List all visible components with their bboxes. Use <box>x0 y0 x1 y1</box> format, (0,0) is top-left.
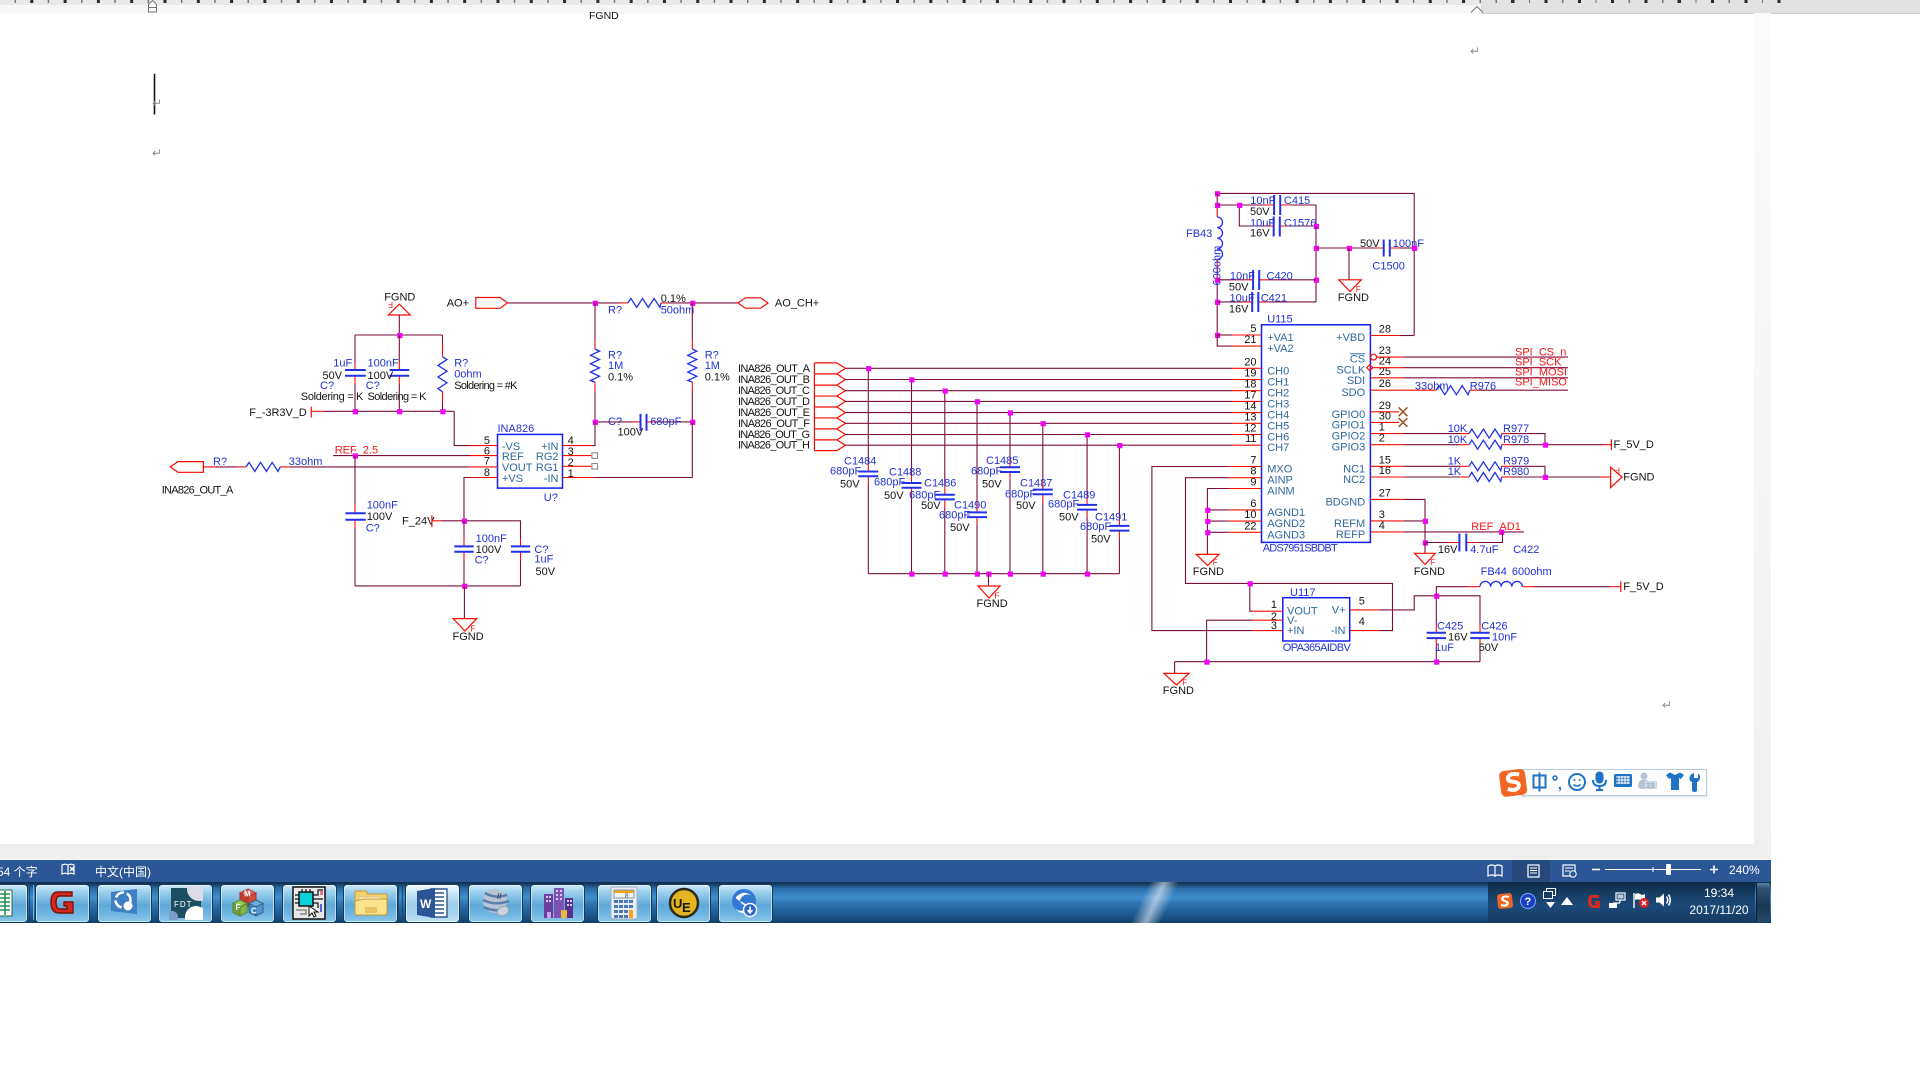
capacitor C420 10nF 50V <box>1217 270 1316 294</box>
ferrite bead FB44 600ohm <box>1436 566 1551 596</box>
svg-text:AGND3: AGND3 <box>1267 529 1305 541</box>
wire VOUT feedback from buffer rail <box>1250 583 1253 611</box>
svg-text:600ohm: 600ohm <box>1512 566 1552 578</box>
svg-text:7: 7 <box>484 456 490 468</box>
svg-text:16V: 16V <box>1438 544 1458 556</box>
svg-text:2: 2 <box>1379 433 1385 445</box>
svg-text:V+: V+ <box>1332 604 1346 616</box>
wire AO+ to resistor <box>508 302 621 304</box>
junction dots on caps rail <box>909 572 1090 577</box>
svg-text:INA826_OUT_D: INA826_OUT_D <box>738 396 810 408</box>
wire U117 bottom rail <box>1175 661 1480 663</box>
resistor R? 1M 0.1% (right) <box>688 303 730 422</box>
op-amp U? INA826 <box>484 423 574 504</box>
svg-text:REF_AD1: REF_AD1 <box>1471 521 1521 533</box>
svg-text:FB44: FB44 <box>1481 566 1507 578</box>
red G tray <box>1586 893 1602 910</box>
pin 3 +IN stub <box>1253 630 1283 632</box>
junction dots on 3R3V rail <box>353 409 358 414</box>
svg-text:50V: 50V <box>1016 500 1036 512</box>
capacitor C1491 680pF 50V <box>1080 445 1129 574</box>
ground FGND (above 3R3V cap bank) <box>384 292 415 316</box>
resistor R976 33ohm (SDO) <box>1370 380 1496 394</box>
btn UE <box>656 884 711 924</box>
svg-text:1: 1 <box>568 468 574 480</box>
svg-text:+IN: +IN <box>1287 625 1304 637</box>
svg-text:+VS: +VS <box>502 473 523 485</box>
pin 27 BDGND wire <box>1370 498 1403 500</box>
wire resistor to AO_CH+ <box>668 302 738 304</box>
svg-text:50V: 50V <box>1091 534 1111 546</box>
svg-text:+VBD: +VBD <box>1336 332 1365 344</box>
svg-text:CH5: CH5 <box>1267 420 1289 432</box>
port INA826_OUT_A (left) <box>162 462 234 497</box>
svg-text:AO_CH+: AO_CH+ <box>775 297 819 309</box>
svg-text:W: W <box>420 897 432 911</box>
text cursor <box>154 74 156 115</box>
svg-text:BDGND: BDGND <box>1325 496 1365 508</box>
sogou input bar <box>1521 769 1707 796</box>
resistor R980 1K (NC2) <box>1370 466 1529 481</box>
svg-text:F: F <box>388 300 393 309</box>
wire top rail of 3R3V cap bank <box>355 334 443 336</box>
svg-text:100nF: 100nF <box>368 357 399 369</box>
wire +VA1 connection <box>1217 334 1232 336</box>
svg-text:16V: 16V <box>1229 304 1249 316</box>
svg-text:4.7uF: 4.7uF <box>1470 544 1498 556</box>
svg-text:19: 19 <box>1244 368 1256 380</box>
svg-text:1uF: 1uF <box>333 357 352 369</box>
svg-text:100V: 100V <box>367 511 393 523</box>
svg-text:M: M <box>244 890 251 899</box>
wire right bypass vertical <box>1315 226 1317 302</box>
svg-text:↵: ↵ <box>152 96 162 110</box>
svg-text:E: E <box>682 900 691 915</box>
svg-text:20: 20 <box>1244 356 1256 368</box>
window restore icon <box>1543 888 1556 900</box>
svg-text:CH0: CH0 <box>1267 365 1289 377</box>
pin 5 V+ wire <box>1350 609 1380 611</box>
svg-text:CH1: CH1 <box>1267 377 1289 389</box>
svg-text:FGND: FGND <box>589 10 619 22</box>
btn calculator <box>597 884 652 924</box>
junction dots on AO line <box>593 301 598 306</box>
wire bottom rail of 3R3V bank <box>323 410 454 412</box>
svg-text:F_5V_D: F_5V_D <box>1623 581 1663 593</box>
svg-text:F_5V_D: F_5V_D <box>1614 439 1654 451</box>
svg-text:680pF: 680pF <box>939 510 970 522</box>
svg-text:10nF: 10nF <box>1250 195 1275 207</box>
svg-text:Soldering = #K: Soldering = #K <box>454 380 518 392</box>
svg-text:SPI_MISO: SPI_MISO <box>1515 377 1567 389</box>
svg-text:GPIO1: GPIO1 <box>1332 419 1366 431</box>
capacitor C422 4.7uF 16V <box>1425 532 1539 556</box>
svg-text:AGND2: AGND2 <box>1267 518 1305 530</box>
svg-text:II: II <box>497 892 502 901</box>
pin 24 SCLK diamond and wire <box>1367 365 1373 371</box>
power port F_24V <box>402 515 441 527</box>
wire AINP to buffer rail <box>1186 478 1393 631</box>
status bar <box>0 860 1771 882</box>
pin 1 -IN stub and wire up to 680pF node <box>563 477 596 479</box>
svg-text:↵: ↵ <box>1662 698 1672 712</box>
svg-text:27: 27 <box>1379 487 1391 499</box>
taskbar <box>0 882 1771 923</box>
wire MXO loop to U117 +IN <box>1152 467 1253 631</box>
svg-text:U115: U115 <box>1267 313 1292 325</box>
svg-text:F: F <box>1615 466 1620 475</box>
port AO_CH+ <box>738 297 819 309</box>
svg-text:AGND1: AGND1 <box>1267 507 1305 519</box>
svg-text:50V: 50V <box>536 566 556 578</box>
junction dots at 680pF <box>593 420 598 425</box>
svg-text:FGND: FGND <box>1163 685 1194 697</box>
pin 4 REFP wire <box>1370 531 1403 533</box>
capacitor C? 680pF 100V <box>595 414 692 438</box>
svg-text:4: 4 <box>1359 616 1365 628</box>
svg-text:INA826_OUT_A: INA826_OUT_A <box>738 363 811 375</box>
wires ports to U115 CH pins <box>845 368 1232 445</box>
resistor R? 1M 0.1% (left) <box>591 303 634 422</box>
svg-text:R?: R? <box>454 357 468 369</box>
net labels INA826_OUT_A..H <box>738 363 811 452</box>
svg-text:50V: 50V <box>884 490 904 502</box>
hidden icons arrow <box>1561 897 1573 905</box>
IC U115 ADS7951SBDBT <box>1244 313 1391 554</box>
svg-text:33ohm: 33ohm <box>289 456 323 468</box>
svg-text:C426: C426 <box>1481 620 1507 632</box>
btn folder <box>343 884 398 924</box>
svg-text:FDT: FDT <box>174 900 193 909</box>
power port F_5V_D (upper) <box>1603 439 1654 451</box>
svg-text:680pF: 680pF <box>971 466 1002 478</box>
capacitor C1486 680pF 50V <box>909 391 956 574</box>
resistor R977 10K (GPIO2) <box>1370 423 1529 438</box>
pin 7 VOUT stub <box>470 466 498 468</box>
svg-text:50V: 50V <box>840 479 860 491</box>
svg-text:0.1%: 0.1% <box>608 371 633 383</box>
svg-text:C422: C422 <box>1513 544 1539 556</box>
wire AINM to ground <box>1207 489 1228 555</box>
svg-text:+VA2: +VA2 <box>1267 343 1293 355</box>
svg-text:R?: R? <box>608 304 622 316</box>
ground FGND (C1500) <box>1338 248 1369 304</box>
btn S downloader <box>718 884 773 924</box>
svg-text:FGND: FGND <box>1193 566 1224 578</box>
ground FGND (caps rail) <box>977 574 1008 610</box>
svg-text:Soldering = K: Soldering = K <box>368 391 428 403</box>
svg-text:1: 1 <box>1271 599 1277 611</box>
svg-text:6: 6 <box>1250 498 1256 510</box>
svg-text:100nF: 100nF <box>1393 238 1424 250</box>
svg-text:ADS7951SBDBT: ADS7951SBDBT <box>1263 542 1338 554</box>
ferrite bead FB43 600ohm <box>1186 193 1223 335</box>
svg-text:OPA365AIDBV: OPA365AIDBV <box>1283 642 1352 654</box>
power port F_-3R3V_D <box>249 407 323 419</box>
btn EDA <box>282 884 337 924</box>
capacitor C1485 680pF 50V <box>971 413 1020 574</box>
svg-text:MXO: MXO <box>1267 464 1293 476</box>
wire caps bottom rail <box>868 573 1119 575</box>
port AO+ <box>447 297 508 309</box>
ground FGND (REFM) <box>1414 543 1445 578</box>
svg-text:INA826_OUT_A: INA826_OUT_A <box>162 484 234 496</box>
pin 25 SDI wire <box>1370 377 1403 379</box>
svg-text:C420: C420 <box>1267 270 1293 282</box>
svg-text:680pF: 680pF <box>874 477 905 489</box>
svg-text:SDO: SDO <box>1341 387 1365 399</box>
svg-text:50ohm: 50ohm <box>661 304 695 316</box>
wire F_24V rail <box>441 521 521 538</box>
capacitor C? 100nF 100V (on REF_2.5 branch) <box>345 456 398 586</box>
speaker <box>1655 892 1672 908</box>
wire top supply rail (FB43 to +VBD) <box>1217 193 1414 335</box>
svg-text:680pF: 680pF <box>1048 499 1079 511</box>
capacitor C426 10nF 50V <box>1436 596 1517 662</box>
sogou tray <box>1497 893 1513 909</box>
pin 4 U117 -IN stub <box>1350 630 1380 632</box>
pin 4 +IN stub and wire up to 680pF node <box>563 445 593 447</box>
svg-text:INA826_OUT_B: INA826_OUT_B <box>738 374 810 386</box>
svg-text:C1576: C1576 <box>1284 218 1316 230</box>
pin 23 CS bubble and wire <box>1371 354 1377 360</box>
capacitor C1487 680pF 50V <box>1005 423 1053 573</box>
pin 3 RG2 stub with no-connect square <box>563 455 592 457</box>
svg-text:C1486: C1486 <box>924 478 956 490</box>
svg-text:U: U <box>673 896 682 911</box>
capacitor C1490 680pF 50V <box>939 401 987 573</box>
capacitor C425 1uF 16V <box>1427 596 1469 662</box>
svg-text:33ohm: 33ohm <box>1415 380 1449 392</box>
svg-text:CH3: CH3 <box>1267 398 1289 410</box>
wire AGND2 <box>1207 520 1228 522</box>
svg-text:7: 7 <box>1250 455 1256 467</box>
flag x <box>1632 892 1650 909</box>
wire REF_2.5 to REF pin <box>333 455 470 457</box>
svg-text:INA826_OUT_H: INA826_OUT_H <box>738 440 810 452</box>
svg-text:CH7: CH7 <box>1267 442 1289 454</box>
svg-text:FGND: FGND <box>977 598 1008 610</box>
power port F_5V_D (lower) <box>1611 581 1664 593</box>
svg-text:AINM: AINM <box>1267 486 1295 498</box>
svg-text:10: 10 <box>1244 509 1256 521</box>
junction dots on FB43 vertical <box>1215 203 1220 338</box>
svg-text:-IN: -IN <box>544 473 559 485</box>
svg-text:FGND: FGND <box>1414 566 1445 578</box>
svg-text:16V: 16V <box>1250 228 1270 240</box>
btn source insight <box>468 884 523 924</box>
pin 8 +VS stub <box>470 477 498 479</box>
svg-text:10K: 10K <box>1448 434 1468 446</box>
zoom slider <box>1591 861 1721 878</box>
svg-text:VOUT: VOUT <box>502 462 533 474</box>
svg-text:GPIO3: GPIO3 <box>1332 442 1366 454</box>
svg-text:C1500: C1500 <box>1372 260 1404 272</box>
svg-text:50V: 50V <box>1250 206 1270 218</box>
wire rail to -VS pin <box>454 411 470 445</box>
svg-text:F_24V: F_24V <box>402 515 435 527</box>
svg-text:C415: C415 <box>1284 195 1310 207</box>
pin 28 +VBD stub <box>1370 335 1400 337</box>
svg-text:U?: U? <box>544 492 558 504</box>
svg-text:0.1%: 0.1% <box>705 371 730 383</box>
svg-text:680pF: 680pF <box>1080 521 1111 533</box>
junction at FGND stem <box>397 333 402 338</box>
svg-text:C425: C425 <box>1437 620 1463 632</box>
view buttons <box>1487 863 1587 879</box>
svg-text:INA826_OUT_F: INA826_OUT_F <box>738 418 810 430</box>
capacitor C1500 100nF 50V <box>1316 238 1424 272</box>
svg-text:↵: ↵ <box>1470 44 1480 58</box>
pin stubs U115 left <box>1229 335 1262 532</box>
wire FGND stem to rail <box>398 315 400 335</box>
ground FGND (under INA826) <box>453 586 484 643</box>
capacitor C? 100nF 100V (under INA826) <box>454 521 507 586</box>
svg-text:1uF: 1uF <box>534 554 553 566</box>
svg-text:22: 22 <box>1244 520 1256 532</box>
wire FB44 to F_5V_D <box>1534 586 1611 588</box>
svg-text:100V: 100V <box>618 426 644 438</box>
capacitor C? 1uF 50V (left) <box>301 335 366 411</box>
svg-text:FGND: FGND <box>1338 292 1369 304</box>
svg-text:FGND: FGND <box>1623 472 1654 484</box>
wire +VA2 connection <box>1217 335 1232 346</box>
svg-text:INA826: INA826 <box>498 423 535 435</box>
svg-text:5: 5 <box>1359 595 1365 607</box>
btn red G <box>35 884 90 924</box>
svg-text:F_-3R3V_D: F_-3R3V_D <box>249 407 307 419</box>
capacitor C1576 10uF 16V <box>1239 205 1316 240</box>
btn word <box>405 884 460 924</box>
svg-text:?: ? <box>1525 896 1532 908</box>
svg-text:680pF: 680pF <box>650 416 681 428</box>
svg-text:100nF: 100nF <box>367 500 398 512</box>
svg-text:4: 4 <box>1379 520 1385 532</box>
page gutters <box>1754 13 1771 858</box>
svg-text:50V: 50V <box>1479 642 1499 654</box>
svg-text:23: 23 <box>1647 783 1655 790</box>
svg-text:-IN: -IN <box>1331 625 1346 637</box>
capacitor C? 100nF 100V (middle) <box>366 335 427 411</box>
svg-text:C?: C? <box>320 380 334 392</box>
svg-text:680pF: 680pF <box>1005 489 1036 501</box>
ground FGND (AGND) <box>1193 554 1224 577</box>
btn buildings <box>530 884 585 924</box>
svg-text:50V: 50V <box>950 522 970 534</box>
svg-text:FB43: FB43 <box>1186 228 1212 240</box>
network <box>1608 892 1626 909</box>
capacitor C1488 680pF 50V <box>874 380 922 574</box>
svg-text:NC2: NC2 <box>1343 474 1365 486</box>
capacitor C421 10uF 16V <box>1217 292 1316 316</box>
pin 6 REF stub <box>470 455 498 457</box>
pin 2 RG1 stub with no-connect square <box>563 465 592 467</box>
svg-text:,: , <box>1558 776 1562 792</box>
svg-text:R980: R980 <box>1503 466 1529 478</box>
svg-text:21: 21 <box>1244 334 1256 346</box>
btn excel partial <box>0 884 28 924</box>
svg-text:680pF: 680pF <box>830 466 861 478</box>
btn FDT <box>158 884 213 924</box>
resistor R979 1K (NC1) <box>1370 456 1529 471</box>
btn MFC <box>220 884 275 924</box>
resistor R? 0ohm <box>438 335 518 411</box>
svg-text:50V: 50V <box>1059 512 1079 524</box>
svg-text:50V: 50V <box>982 479 1002 491</box>
port FGND (right) <box>1600 466 1655 488</box>
svg-text:50V: 50V <box>1360 238 1380 250</box>
op-amp U117 OPA365AIDBV <box>1271 587 1365 654</box>
svg-text:SDI: SDI <box>1347 375 1365 387</box>
svg-text:C?: C? <box>366 380 380 392</box>
pin 1 VOUT stub <box>1253 610 1283 612</box>
wire bottom rail under INA826 <box>355 585 521 587</box>
svg-text:Soldering = K: Soldering = K <box>301 391 364 403</box>
svg-text:C?: C? <box>366 522 380 534</box>
help ? <box>1520 893 1536 909</box>
svg-text:R?: R? <box>213 456 227 468</box>
ports INA826_OUT_A..H <box>814 363 845 451</box>
svg-text:C421: C421 <box>1261 293 1287 305</box>
pin 3 REFM wire <box>1370 520 1403 522</box>
wire AGND1 <box>1207 509 1228 511</box>
svg-text:REFP: REFP <box>1336 529 1365 541</box>
ground FGND (U117) <box>1163 662 1194 697</box>
junction dots on port wires <box>866 366 1122 448</box>
pin 29 GPIO0 no-connect <box>1370 411 1399 413</box>
resistor R? 33ohm <box>203 456 322 471</box>
svg-text:1uF: 1uF <box>1435 642 1454 654</box>
ruler strip <box>0 0 1481 5</box>
wire AGND3 <box>1207 531 1228 533</box>
resistor R978 10K (GPIO3) <box>1370 434 1529 449</box>
resistor R? 50ohm 0.1% <box>608 293 694 316</box>
capacitor C415 10nF 50V <box>1217 195 1316 226</box>
svg-text:C?: C? <box>475 554 489 566</box>
wire 33ohm to VOUT <box>290 466 470 468</box>
junction dots AGND <box>1205 508 1210 536</box>
svg-text:↵: ↵ <box>152 146 162 160</box>
svg-text:F: F <box>235 903 240 912</box>
btn blue screen <box>97 884 152 924</box>
svg-text:9: 9 <box>1250 477 1256 489</box>
svg-text:RG1: RG1 <box>536 462 559 474</box>
pin 5 -VS stub <box>470 445 498 447</box>
capacitor C1484 680pF 50V <box>830 368 878 573</box>
wire +VS down to F_24V node <box>464 478 470 521</box>
svg-text:FGND: FGND <box>453 631 484 643</box>
svg-text:R978: R978 <box>1503 434 1529 446</box>
svg-text:C: C <box>251 907 257 916</box>
svg-text:28: 28 <box>1379 324 1391 336</box>
capacitor C? 1uF 50V (under INA826) <box>511 538 556 586</box>
capacitor C1489 680pF 50V <box>1048 435 1097 574</box>
svg-text:AO+: AO+ <box>447 297 469 309</box>
svg-text:1K: 1K <box>1448 466 1462 478</box>
pin 2 V- wire <box>1253 619 1283 621</box>
pin 30 GPIO1 no-connect <box>1370 421 1399 423</box>
svg-text:26: 26 <box>1379 378 1391 390</box>
